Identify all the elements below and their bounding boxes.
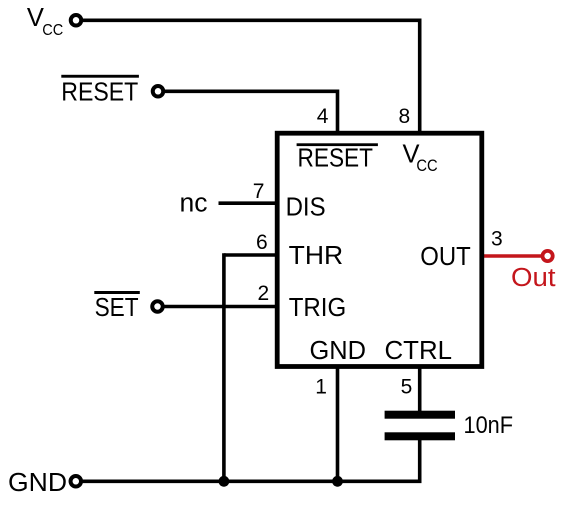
svg-text:Out: Out <box>511 264 556 292</box>
svg-text:2: 2 <box>258 282 270 305</box>
terminal RESET <box>153 86 164 97</box>
svg-text:GND: GND <box>8 469 67 497</box>
svg-text:10nF: 10nF <box>464 412 514 439</box>
node label SET (overlined) <box>94 291 140 322</box>
svg-text:RESET: RESET <box>298 144 374 172</box>
svg-text:8: 8 <box>399 105 411 128</box>
wire THR horizontal pin 6 <box>224 253 279 257</box>
svg-text:CTRL: CTRL <box>385 337 453 365</box>
svg-text:6: 6 <box>256 231 268 254</box>
terminal VCC <box>71 15 82 26</box>
wire GND rail <box>76 479 422 483</box>
wire RESET horizontal <box>158 90 338 94</box>
svg-text:RESET: RESET <box>61 78 138 106</box>
wire THR vertical to ground rail <box>222 253 226 481</box>
wire pin 1 vertical to ground rail <box>336 365 340 481</box>
svg-text:nc: nc <box>180 190 208 218</box>
svg-text:GND: GND <box>310 337 367 365</box>
junction dot THR/GND rail <box>219 476 230 487</box>
wire OUT pin 3 (red) <box>481 254 548 258</box>
pin label VCC inside IC <box>403 141 438 175</box>
svg-text:DIS: DIS <box>286 193 326 221</box>
terminal Out (red) <box>543 251 553 261</box>
wire pin 5 vertical upper <box>418 365 422 415</box>
svg-text:TRIG: TRIG <box>289 294 347 322</box>
svg-text:CC: CC <box>416 156 437 175</box>
svg-text:7: 7 <box>253 180 265 203</box>
wire pin 8 vertical <box>418 19 422 135</box>
wire SET to TRIG pin 2 <box>158 305 280 309</box>
terminal SET <box>152 301 163 312</box>
svg-text:4: 4 <box>317 105 329 128</box>
capacitor C1 top plate <box>385 411 455 419</box>
svg-text:5: 5 <box>401 376 413 399</box>
junction dot pin1/GND rail <box>332 476 343 487</box>
svg-text:1: 1 <box>315 376 327 399</box>
node label RESET (overlined) <box>61 75 139 107</box>
node label VCC (top left) <box>27 4 63 39</box>
wire capacitor to ground rail <box>418 436 422 481</box>
svg-text:THR: THR <box>289 242 344 270</box>
wire nc to DIS pin 7 <box>219 201 280 205</box>
capacitor C1 bottom plate <box>385 432 455 440</box>
svg-text:SET: SET <box>95 294 139 322</box>
wire pin 4 vertical <box>336 90 340 135</box>
pin label RESET inside IC (overlined) <box>297 143 378 172</box>
svg-text:3: 3 <box>491 228 503 251</box>
wire VCC horizontal rail <box>76 18 420 22</box>
terminal GND <box>71 476 82 487</box>
op-amp IC body 555 timer U1 <box>277 133 482 366</box>
svg-text:CC: CC <box>42 22 63 39</box>
svg-text:OUT: OUT <box>420 243 471 271</box>
